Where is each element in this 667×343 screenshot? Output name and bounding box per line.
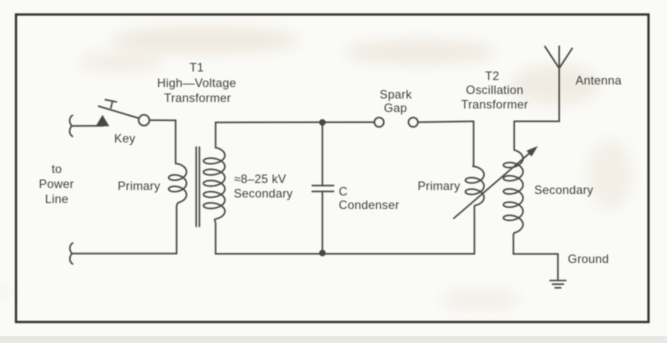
node: junction condenser bottom [319,250,326,257]
variable coupling arrow [454,147,537,218]
wire: top rail T1 secondary to spark gap [216,121,375,123]
wire: spark gap to T2 primary top [418,120,474,123]
wire: T2 secondary to ground [513,254,558,280]
svg-text:Primary: Primary [118,179,161,193]
svg-text:Transformer: Transformer [461,97,528,111]
transformer T1 primary winding [169,120,187,253]
node: junction condenser top [319,119,326,126]
svg-text:Key: Key [114,132,135,146]
wire: condenser top lead [321,122,323,185]
svg-text:Spark: Spark [380,87,413,101]
svg-text:C: C [339,185,348,199]
svg-text:Power: Power [39,177,74,191]
transformer T1 secondary winding [204,122,225,253]
svg-text:to: to [52,162,63,176]
svg-text:Transformer: Transformer [164,91,231,105]
wire: power line top lead to key [72,125,103,127]
svg-text:T1: T1 [189,61,204,75]
transformer T2 secondary winding [503,121,523,254]
spark gap electrode left [375,118,384,127]
transformer T1 core [196,147,199,227]
terminal: power line bottom [70,243,73,264]
svg-text:≈8–25 kV: ≈8–25 kV [234,172,286,186]
svg-text:Oscillation: Oscillation [466,83,524,97]
key [97,100,150,126]
svg-text:Primary: Primary [418,179,461,193]
svg-text:Secondary: Secondary [534,183,593,197]
svg-text:Line: Line [45,192,69,206]
spark gap electrode right [409,118,418,127]
svg-text:Ground: Ground [568,252,609,266]
svg-text:T2: T2 [485,69,500,83]
terminal: power line top [70,115,73,136]
svg-text:Condenser: Condenser [339,198,400,212]
transformer T2 primary winding [465,121,484,254]
wire: antenna to T2 secondary [514,68,559,121]
svg-text:Secondary: Secondary [234,186,293,200]
antenna [545,46,572,68]
svg-text:Gap: Gap [384,101,407,115]
svg-text:High—Voltage: High—Voltage [157,76,236,90]
ground [550,281,566,288]
capacitor C [312,186,333,192]
wire: condenser bottom lead [321,191,323,253]
wire: key to T1 primary top [149,119,175,121]
wire: T1 primary bottom to power line [72,253,177,255]
svg-text:Antenna: Antenna [576,74,622,88]
wire: bottom rail T1 secondary to T2 primary [216,253,475,255]
